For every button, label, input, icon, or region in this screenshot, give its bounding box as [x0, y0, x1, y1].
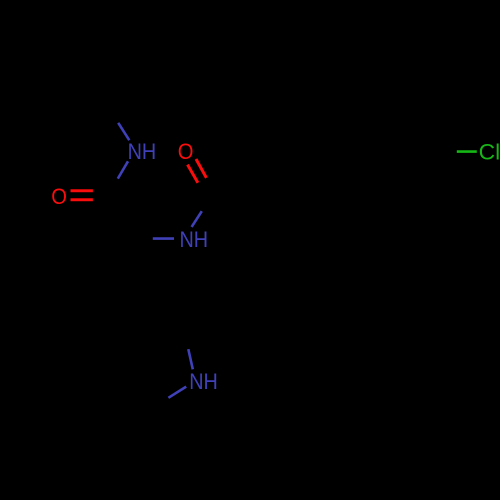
svg-text:NH: NH	[128, 139, 157, 164]
wire bond N2 to C2 carbonyl (half-bond, blue)	[192, 211, 202, 227]
svg-text:Cl: Cl	[479, 140, 500, 165]
wire bond N3 to C7a-indole (half-bond, blue)	[168, 387, 186, 398]
wire double bond C2=O2 (half-bonds, red)	[188, 165, 198, 183]
svg-text:O: O	[51, 184, 67, 209]
svg-text:NH: NH	[180, 227, 209, 252]
wire bond N1 to C1 carbonyl (half-bond, blue)	[118, 161, 128, 178]
svg-text:NH: NH	[189, 369, 218, 394]
wire bond N2 to C-alpha (half-bond, blue)	[153, 237, 174, 240]
svg-text:O: O	[178, 139, 194, 164]
wire bond ring-C to Cl (half-bond, green)	[457, 150, 477, 153]
wire bond CH3 to N1 (half-bond, blue)	[118, 123, 129, 140]
wire bond N3 to C2-indole (half-bond, blue)	[188, 349, 193, 369]
wire double bond C1=O1 (half-bonds, red)	[71, 189, 93, 192]
